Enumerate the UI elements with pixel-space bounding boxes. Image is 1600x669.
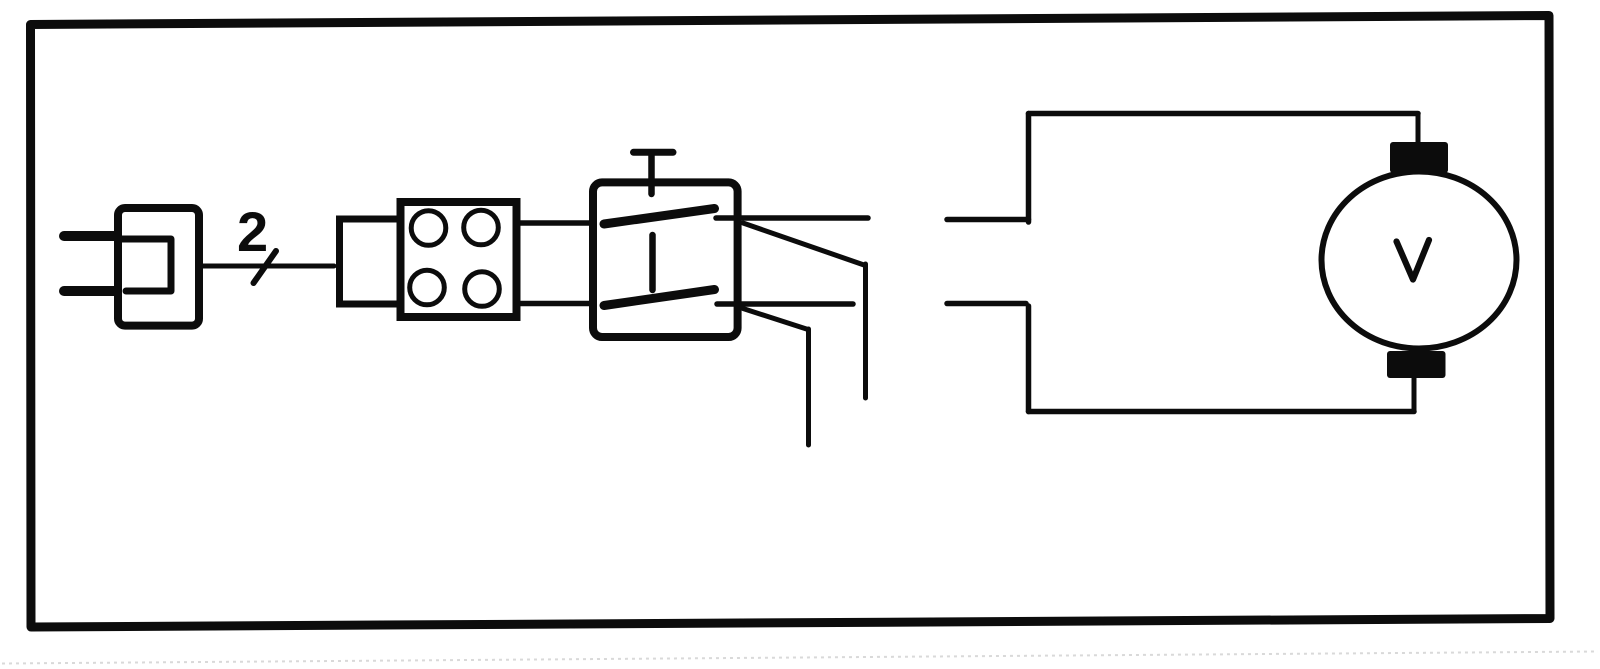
harness wire top rail xyxy=(1029,111,1419,117)
motor M1 letter V xyxy=(1397,240,1430,280)
scan artifact dotted line (decorative) xyxy=(2,652,1598,664)
connector X1 pin 1 xyxy=(411,211,446,246)
motor M1 body xyxy=(1322,172,1517,349)
conductor-count slash xyxy=(254,251,277,283)
wire plug to connector xyxy=(202,264,334,269)
switch S1 pole 2 blade xyxy=(604,290,715,306)
switch S1 pole 2 contact wire xyxy=(717,301,853,307)
connector X1 small housing xyxy=(340,219,404,304)
motor bottom lead xyxy=(1412,376,1417,412)
motor M1 bottom brush xyxy=(1387,351,1446,378)
mains plug P1 body xyxy=(118,208,199,326)
switch S1 actuator bar xyxy=(634,149,674,156)
switch S1 pole 1 contact wire xyxy=(716,215,868,221)
harness wire bottom segment xyxy=(947,301,1026,307)
switch S1 linkage dash xyxy=(649,235,656,290)
mains plug P1 prong lower xyxy=(64,286,116,296)
switch S1 box xyxy=(593,182,738,337)
mains plug P1 prong upper xyxy=(64,231,116,241)
switch S1 actuator stem xyxy=(648,154,655,194)
switch S1 pole 1 blade xyxy=(604,209,715,225)
wire connector to switch top xyxy=(517,220,621,226)
mains plug P1 inner contact xyxy=(122,239,171,291)
motor top lead xyxy=(1416,114,1421,147)
branch wire lower diagonal xyxy=(743,309,807,330)
branch wire upper vertical xyxy=(863,264,868,398)
connector X1 main housing xyxy=(401,202,517,317)
wire connector to switch bottom xyxy=(517,301,621,307)
harness wire top riser xyxy=(1026,114,1032,223)
harness wire top segment xyxy=(947,217,1029,223)
svg-text:2: 2 xyxy=(237,200,268,263)
connector X1 pin 2 xyxy=(464,210,499,245)
branch wire upper diagonal xyxy=(743,223,864,265)
harness wire bottom riser xyxy=(1026,306,1032,412)
connector X1 pin 4 xyxy=(465,272,500,307)
connector X1 pin 3 xyxy=(410,270,445,305)
motor M1 top brush xyxy=(1390,142,1448,173)
branch wire lower vertical xyxy=(806,329,811,445)
harness wire bottom rail xyxy=(1029,409,1415,415)
